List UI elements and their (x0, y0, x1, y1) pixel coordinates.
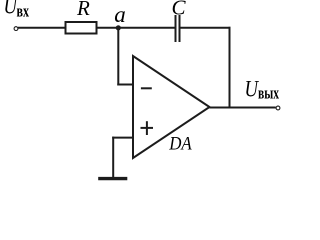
svg-text:U: U (245, 77, 260, 102)
svg-text:R: R (76, 0, 90, 20)
svg-text:C: C (172, 0, 187, 20)
svg-text:a: a (114, 2, 126, 27)
svg-text:вых: вых (258, 83, 279, 102)
svg-text:вх: вх (17, 1, 30, 20)
svg-text:DA: DA (168, 133, 192, 154)
